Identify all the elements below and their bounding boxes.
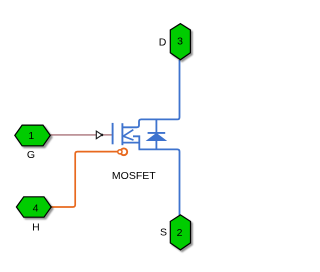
wire H (orange thermal) — [51, 152, 118, 207]
port 2 hexagon — [170, 215, 190, 250]
MOSFET gate bar — [112, 123, 114, 144]
MOSFET body arrow — [123, 130, 133, 140]
wire source to port 2 — [139, 149, 180, 215]
signal arrowhead — [96, 131, 103, 139]
MOSFET body stub — [133, 136, 139, 149]
port 4 hexagon — [16, 197, 51, 217]
port marker H (orange circles) — [118, 148, 127, 155]
svg-text:MOSFET: MOSFET — [112, 170, 156, 182]
body diode wire — [155, 119, 157, 149]
MOSFET channel bar — [121, 123, 123, 145]
svg-text:S: S — [160, 227, 167, 239]
body diode cathode bar — [148, 132, 166, 134]
svg-text:H: H — [32, 221, 40, 233]
svg-text:1: 1 — [28, 130, 34, 142]
svg-text:D: D — [159, 37, 167, 49]
MOSFET source stub — [122, 142, 139, 144]
wire drain to port 3 — [122, 60, 179, 127]
wire signal G — [50, 134, 112, 136]
svg-text:2: 2 — [177, 227, 183, 239]
port 3 hexagon — [170, 24, 190, 60]
body diode triangle — [147, 133, 166, 140]
port 1 hexagon — [15, 125, 51, 146]
svg-text:G: G — [27, 149, 35, 161]
svg-text:4: 4 — [33, 203, 39, 215]
svg-text:3: 3 — [177, 36, 183, 48]
